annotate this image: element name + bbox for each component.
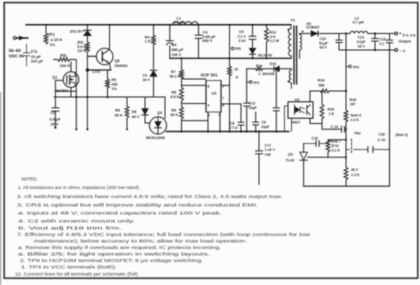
node rail crossings xyxy=(75,96,77,98)
wire opto collector xyxy=(309,91,311,102)
svg-text:4: 4 xyxy=(208,104,210,108)
svg-text:3 kV: 3 kV xyxy=(239,39,247,43)
wire source rail xyxy=(54,96,165,98)
svg-text:0.1 μ: 0.1 μ xyxy=(229,125,237,129)
svg-text:TP3: TP3 xyxy=(253,81,259,85)
svg-text:SCP 301: SCP 301 xyxy=(201,73,219,78)
wire return drop xyxy=(389,50,391,186)
wire Vref branch xyxy=(229,25,231,132)
left page edge xyxy=(0,92,2,285)
wire Q8 emitter xyxy=(109,64,112,70)
svg-text:R8: R8 xyxy=(172,91,177,95)
wire emitter node rail xyxy=(87,69,111,71)
svg-text:1 nF Y: 1 nF Y xyxy=(265,148,276,152)
wire Q1 drain xyxy=(70,62,72,72)
svg-text:C13: C13 xyxy=(358,36,365,40)
svg-text:TR2: TR2 xyxy=(354,132,361,136)
svg-text:16 V: 16 V xyxy=(143,78,151,82)
wire left vertical 76 xyxy=(75,91,77,129)
svg-text:95.1F 60: 95.1F 60 xyxy=(258,54,272,58)
capacitor C13 xyxy=(374,34,376,51)
svg-text:100 K: 100 K xyxy=(60,63,71,68)
svg-text:MCR120/W: MCR120/W xyxy=(146,136,165,140)
svg-text:2.2 n: 2.2 n xyxy=(238,35,246,39)
resistor R14 xyxy=(256,67,263,70)
arrow input xyxy=(19,36,25,41)
wire Vcc aux line xyxy=(247,68,291,70)
wire feedback top xyxy=(310,90,346,92)
resistor R7 xyxy=(181,58,183,69)
capacitor C14a xyxy=(275,69,277,132)
svg-text:Q1: Q1 xyxy=(52,75,58,79)
node input terminal xyxy=(13,37,16,40)
svg-text:OP: OP xyxy=(350,103,356,107)
svg-text:10: 10 xyxy=(234,68,238,72)
opto-isolator U3 xyxy=(288,102,313,118)
svg-text:a. Remove this supply if overl: a. Remove this supply if overloads are r… xyxy=(18,245,221,250)
svg-text:cap: cap xyxy=(265,153,271,157)
node TP4 xyxy=(346,66,349,68)
wire TL431 ref xyxy=(307,156,346,158)
svg-text:100 μF: 100 μF xyxy=(31,60,44,64)
svg-text:25 V: 25 V xyxy=(51,123,59,127)
resistor R4 xyxy=(153,25,155,35)
svg-text:C2: C2 xyxy=(50,111,55,115)
resistor R16 xyxy=(320,89,329,93)
svg-text:6.8 K: 6.8 K xyxy=(171,95,180,99)
svg-text:1 K: 1 K xyxy=(329,112,335,116)
transistor Q1 xyxy=(63,72,79,88)
svg-text:2–10: 2–10 xyxy=(378,138,386,142)
svg-text:TL43: TL43 xyxy=(286,159,295,163)
svg-text:100 V: 100 V xyxy=(172,53,182,57)
wire Q9 anode xyxy=(164,97,166,119)
node base junction xyxy=(86,68,89,71)
svg-text:5 V, 4 A: 5 V, 4 A xyxy=(403,34,416,38)
capacitor C7 Y-cap xyxy=(258,132,260,185)
svg-text:↳ 1N4148: ↳ 1N4148 xyxy=(258,72,274,76)
svg-text:(Note 2): (Note 2) xyxy=(396,133,408,137)
svg-text:82 K: 82 K xyxy=(171,113,179,117)
svg-text:600 V: 600 V xyxy=(203,39,213,43)
svg-text:U3: U3 xyxy=(295,98,300,102)
svg-text:C3: C3 xyxy=(172,43,177,47)
wire negative rail xyxy=(170,57,291,59)
thyristor Q9 xyxy=(149,117,166,134)
svg-text:(R3): (R3) xyxy=(60,53,66,57)
capacitor C5 xyxy=(252,25,254,48)
svg-text:2.15 K: 2.15 K xyxy=(51,37,63,42)
svg-text:1: 1 xyxy=(208,113,210,117)
svg-text:12. Connect lines for all term: 12. Connect lines for all terminals per … xyxy=(15,272,139,277)
resistor R15 xyxy=(321,91,323,104)
svg-text:C15: C15 xyxy=(312,136,318,140)
wire D1-R2 branch xyxy=(86,25,88,129)
svg-text:6.8 μF: 6.8 μF xyxy=(50,118,62,122)
svg-text:K: K xyxy=(236,75,239,79)
capacitor C15 xyxy=(304,140,329,144)
transformer T1 aux winding xyxy=(289,70,291,83)
svg-text:9: 9 xyxy=(219,113,221,117)
svg-text:680 μF: 680 μF xyxy=(172,48,185,52)
svg-text:NOTES:: NOTES: xyxy=(22,177,38,182)
svg-text:6. Vout adj R18 trim 5%.: 6. Vout adj R18 trim 5%. xyxy=(18,225,122,230)
svg-text:C 14: C 14 xyxy=(331,125,339,129)
svg-text:4.7 μH: 4.7 μH xyxy=(174,20,186,24)
svg-text:a. Bifilar 2/5; for tight oper: a. Bifilar 2/5; for tight operation in s… xyxy=(18,251,210,256)
svg-text:15 μF: 15 μF xyxy=(31,55,42,59)
svg-text:C12: C12 xyxy=(249,102,256,106)
wire output rail xyxy=(318,33,395,35)
svg-text:63 V: 63 V xyxy=(320,46,328,50)
svg-text:Output: Output xyxy=(399,40,412,44)
capacitor C8 xyxy=(240,104,242,132)
wire Q8 base xyxy=(87,55,96,57)
svg-text:Note 6: Note 6 xyxy=(351,114,362,118)
resistor R1 xyxy=(45,25,47,33)
svg-text:2N7587: 2N7587 xyxy=(55,89,68,93)
capacitor C1 xyxy=(26,44,28,66)
svg-text:45 K: 45 K xyxy=(115,113,123,117)
transformer TR2 optional dashed xyxy=(351,139,353,154)
transformer T1 core xyxy=(294,26,297,84)
svg-text:C4: C4 xyxy=(203,30,209,34)
svg-text:1. TP4 to VCC terminals (both): 1. TP4 to VCC terminals (both). xyxy=(21,265,117,270)
svg-text:48 V: 48 V xyxy=(132,115,140,119)
resistor R12 xyxy=(266,25,268,28)
svg-text:TP4: TP4 xyxy=(353,66,360,70)
svg-text:4. C2 with ceramic mount only.: 4. C2 with ceramic mount only. xyxy=(18,219,135,224)
svg-text:3. CR3 is optional but will im: 3. CR3 is optional but will improve stab… xyxy=(17,202,258,207)
wire bottom secondary xyxy=(304,185,390,187)
svg-text:1 K: 1 K xyxy=(145,40,151,44)
diode D10 xyxy=(274,66,279,72)
svg-text:TP5: TP5 xyxy=(235,47,241,51)
node TP5 xyxy=(231,47,234,50)
svg-text:2. All switching transistors h: 2. All switching transistors have curren… xyxy=(17,194,283,199)
svg-text:2N3902: 2N3902 xyxy=(115,64,128,68)
resistor R8 xyxy=(181,79,183,88)
resistor R10 xyxy=(228,66,232,76)
capacitor C12 xyxy=(246,69,248,132)
resistor R6 xyxy=(126,97,128,106)
svg-text:2.2 K: 2.2 K xyxy=(351,173,360,177)
resistor R9 xyxy=(181,101,183,107)
svg-text:1.5 K: 1.5 K xyxy=(92,70,101,74)
capacitor C3 xyxy=(169,25,171,59)
svg-text:VDC IN: VDC IN xyxy=(9,54,24,59)
op-amp U1 controller xyxy=(206,81,221,113)
diode D5 xyxy=(249,48,256,54)
wire output return xyxy=(339,49,395,51)
svg-text:C5: C5 xyxy=(239,30,244,34)
capacitor C2 xyxy=(54,91,56,127)
svg-text:4N27: 4N27 xyxy=(292,121,301,125)
node phase dots xyxy=(287,29,289,31)
svg-text:R7: R7 xyxy=(171,70,176,74)
svg-text:2.2 K: 2.2 K xyxy=(351,118,360,122)
svg-text:Note 7: Note 7 xyxy=(331,140,342,144)
svg-text:(D1) 16 V: (D1) 16 V xyxy=(70,30,85,34)
resistor R18 xyxy=(344,110,348,122)
svg-text:10μF: 10μF xyxy=(249,106,258,110)
svg-text:maintenance); below accuracy t: maintenance); below accuracy to 80%; all… xyxy=(34,238,247,243)
wire sense line xyxy=(345,34,347,187)
resistor R3 xyxy=(58,58,71,62)
wire Q1 gate loop xyxy=(55,80,76,91)
wire gnd bus primary xyxy=(166,131,289,133)
svg-text:T1: T1 xyxy=(291,18,296,23)
wire +input bus xyxy=(26,24,291,26)
diode D4 xyxy=(150,71,157,77)
transformer T1 secondary winding xyxy=(300,35,302,51)
wire taps to U1 xyxy=(182,79,209,121)
svg-text:D10: D10 xyxy=(270,62,276,66)
capacitor C14 xyxy=(322,124,346,130)
node TP3 xyxy=(247,81,250,83)
transformer T1 primary winding xyxy=(289,29,292,57)
svg-text:R16: R16 xyxy=(318,79,325,83)
svg-text:D6: D6 xyxy=(132,110,137,114)
svg-text:(C1): (C1) xyxy=(31,50,38,54)
svg-text:2: 2 xyxy=(222,85,224,89)
svg-text:0.1: 0.1 xyxy=(380,42,385,46)
resistor R20 xyxy=(326,140,330,152)
svg-text:− o: − o xyxy=(400,49,406,53)
capacitor C15o xyxy=(389,34,391,51)
svg-text:1%: 1% xyxy=(112,87,118,91)
inductor L1 xyxy=(173,22,199,25)
capacitor C16 xyxy=(368,147,373,153)
resistor R2 xyxy=(86,42,90,52)
junction dots on bus xyxy=(45,24,47,26)
diode D9 xyxy=(311,31,318,37)
wire U1 pin right xyxy=(221,85,241,104)
svg-text:4.7 μH: 4.7 μH xyxy=(353,21,365,25)
svg-text:Q8: Q8 xyxy=(115,59,121,63)
svg-text:182: 182 xyxy=(112,83,118,87)
wire Q8 collector xyxy=(109,25,111,50)
svg-text:3.1 K: 3.1 K xyxy=(332,148,341,152)
svg-text:Q9: Q9 xyxy=(157,111,162,115)
svg-text:R6: R6 xyxy=(115,109,120,113)
svg-text:C16: C16 xyxy=(379,133,385,137)
svg-text:1%: 1% xyxy=(50,43,56,47)
svg-text:U1: U1 xyxy=(212,91,218,96)
svg-text:8: 8 xyxy=(208,85,210,89)
svg-text:16 V: 16 V xyxy=(358,44,366,48)
svg-text:R5: R5 xyxy=(112,78,117,82)
svg-text:R18: R18 xyxy=(350,98,357,102)
wire opto led pins xyxy=(284,106,291,132)
capacitor C9 xyxy=(255,112,257,132)
svg-text:(7.4: (7.4 xyxy=(265,144,271,148)
wire input lead xyxy=(16,37,28,39)
svg-text:7. Efficiency of 4.8/5.2 VDC i: 7. Efficiency of 4.8/5.2 VDC input toler… xyxy=(17,232,310,237)
diode D6 xyxy=(144,97,146,108)
node output terminals xyxy=(395,32,398,35)
svg-text:45 V: 45 V xyxy=(351,168,359,172)
svg-text:a. Inputs at 48 V; connected c: a. Inputs at 48 V; connected capacitors … xyxy=(18,211,222,216)
svg-text:36–60: 36–60 xyxy=(9,48,22,53)
svg-text:7: 7 xyxy=(222,97,224,101)
wire sense mid xyxy=(328,139,346,141)
wire U1 pins bottom xyxy=(208,112,220,132)
capacitor C4 xyxy=(198,25,200,59)
shunt regulator U2 TL431 xyxy=(300,152,308,160)
svg-text:V15ENT: V15ENT xyxy=(306,26,321,30)
svg-text:36.1 K: 36.1 K xyxy=(170,75,181,79)
capacitor C10 xyxy=(338,34,340,51)
svg-text:6: 6 xyxy=(222,104,224,108)
svg-text:(2n: (2n xyxy=(288,153,293,157)
transistor Q8 xyxy=(96,48,113,65)
svg-text:2.2 W: 2.2 W xyxy=(270,39,280,43)
svg-text:10μF: 10μF xyxy=(261,125,270,129)
svg-text:R9: R9 xyxy=(172,109,177,113)
wire Q1 source xyxy=(70,87,72,97)
resistor R21 xyxy=(344,167,348,180)
diode D1 xyxy=(84,31,92,36)
svg-text:2. TP9 to HCP10M terminal MOSF: 2. TP9 to HCP10M terminal MOSFET; 8 μs v… xyxy=(20,258,203,263)
svg-text:R15: R15 xyxy=(328,108,335,112)
svg-text:1. All resistances are in ohms: 1. All resistances are in ohms, impedanc… xyxy=(18,185,140,190)
resistor R5 xyxy=(107,70,109,79)
svg-text:580: 580 xyxy=(319,84,325,88)
inductor L2 xyxy=(350,31,368,33)
svg-text:R14: R14 xyxy=(256,64,262,68)
node bottoms xyxy=(54,127,56,129)
wire opto emitter xyxy=(310,118,322,123)
svg-text:1/2 W: 1/2 W xyxy=(77,49,87,53)
